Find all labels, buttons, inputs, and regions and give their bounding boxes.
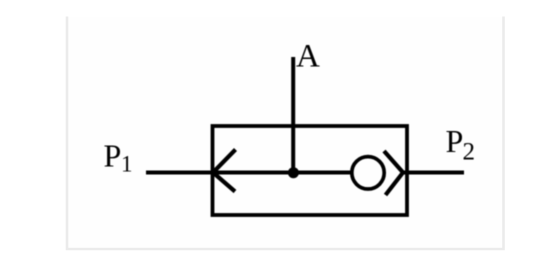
wire A (pilot line down to junction) [291, 57, 295, 173]
check valve seat right [384, 151, 403, 195]
svg-text:P: P [104, 138, 122, 174]
check valve ball [352, 157, 384, 189]
svg-text:A: A [296, 39, 320, 75]
panel backdrop (figure container) [67, 17, 504, 250]
junction node [288, 167, 299, 178]
check valve seat left [213, 150, 236, 192]
valve body [213, 126, 408, 215]
wire P1 (left port to junction to ball) [146, 171, 351, 175]
svg-text:1: 1 [121, 152, 133, 177]
svg-text:2: 2 [463, 139, 476, 166]
wire P2 (seat vertex to right port) [403, 171, 464, 175]
svg-text:P: P [446, 123, 464, 159]
